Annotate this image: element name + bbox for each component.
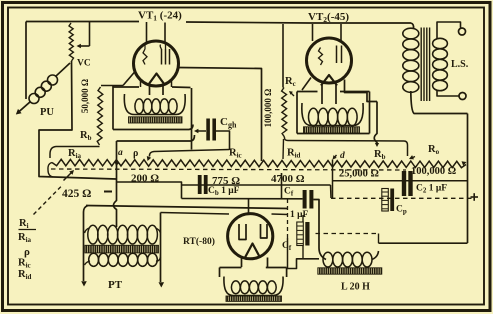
svg-text:4700 Ω: 4700 Ω <box>271 173 305 185</box>
svg-text:425 Ω: 425 Ω <box>62 188 91 200</box>
svg-text:L.S.: L.S. <box>451 59 469 70</box>
svg-text:a: a <box>118 148 123 158</box>
svg-text:ρ: ρ <box>24 246 30 258</box>
svg-text:50,000 Ω: 50,000 Ω <box>80 79 90 113</box>
svg-text:VT2(-45): VT2(-45) <box>308 11 349 24</box>
svg-text:VT1 (-24): VT1 (-24) <box>138 10 182 23</box>
svg-text:Cb 1 μF: Cb 1 μF <box>208 186 240 197</box>
svg-text:VC: VC <box>77 59 91 69</box>
svg-text:PU: PU <box>40 107 54 118</box>
svg-text:d: d <box>340 151 345 161</box>
svg-text:C2 1 μF: C2 1 μF <box>416 184 447 195</box>
svg-text:L 20 H: L 20 H <box>341 282 370 293</box>
svg-text:RT(-80): RT(-80) <box>183 236 215 247</box>
svg-text:25,000 Ω: 25,000 Ω <box>339 169 379 180</box>
svg-text:PT: PT <box>108 279 123 291</box>
svg-text:1 μF: 1 μF <box>290 210 309 220</box>
svg-text:100,000 Ω: 100,000 Ω <box>263 89 273 128</box>
svg-text:ρ: ρ <box>133 148 138 159</box>
svg-text:100,000 Ω: 100,000 Ω <box>411 166 456 177</box>
